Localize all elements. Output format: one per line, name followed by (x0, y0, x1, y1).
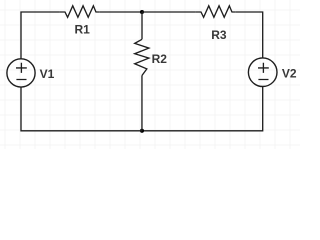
svg-text:V1: V1 (40, 67, 55, 81)
junction node B (140, 129, 144, 133)
wire R1 to node A (99, 11, 142, 13)
wire node A to R3 (142, 11, 196, 13)
wire top-left corner to R1 (21, 12, 60, 59)
resistor R1 (60, 6, 100, 17)
svg-text:V2: V2 (282, 66, 297, 80)
resistor R2 (135, 39, 149, 75)
wire node A down into R2 (141, 12, 143, 39)
junction node A (140, 10, 144, 14)
svg-text:R3: R3 (211, 28, 227, 42)
wire V2 to bottom-right corner to node B (142, 87, 263, 131)
svg-text:R1: R1 (75, 23, 91, 37)
wire node B to bottom-left corner up to V1 (21, 87, 142, 131)
wire R2 to node B (141, 76, 143, 131)
svg-text:R2: R2 (152, 52, 168, 66)
wire R3 to top-right corner down to V2 (235, 12, 263, 58)
voltage source V2 (248, 58, 277, 87)
voltage source V1 (7, 59, 35, 87)
resistor R3 (196, 6, 236, 17)
